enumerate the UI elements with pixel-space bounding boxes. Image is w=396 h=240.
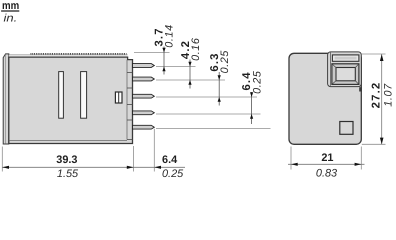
dimension line 39.3 / 6.4 bottom	[2, 166, 185, 169]
latch detail	[115, 92, 122, 103]
extension line F (pin5)	[156, 128, 271, 130]
svg-text:0.25: 0.25	[219, 50, 231, 74]
extension line 6.4 right (pin tips)	[153, 129, 155, 172]
extension line C (pin2)	[156, 79, 225, 81]
svg-text:39.3: 39.3	[56, 154, 77, 166]
extension line 39.3 right / 6.4 left	[133, 146, 135, 172]
label 39.3 / 1.55	[56, 154, 79, 180]
svg-text:in.: in.	[4, 12, 18, 24]
clip window	[332, 64, 359, 85]
pin 3	[133, 94, 155, 98]
extension line A (body top)	[134, 52, 170, 54]
dimension 6.4 / 0.25 (vertical, pin3-pin4)	[241, 70, 263, 124]
clip outer	[328, 52, 362, 87]
svg-text:6.4: 6.4	[162, 154, 177, 166]
extension line 27.2 top	[362, 53, 386, 55]
pin 2	[133, 77, 155, 81]
svg-text:21: 21	[321, 152, 333, 164]
bottom inner line	[9, 140, 127, 142]
relay front view: body	[289, 53, 361, 144]
extension line E (pin4)	[156, 113, 261, 115]
notch on right edge	[359, 87, 362, 91]
pin 1	[133, 64, 155, 68]
extension line D (pin3)	[156, 96, 257, 98]
relay side view: main body	[9, 57, 133, 143]
inner edge line of right face	[126, 60, 128, 140]
extension line B (pin1)	[156, 66, 196, 68]
svg-text:1.07: 1.07	[382, 83, 394, 107]
dimension 4.2 / 0.16	[180, 37, 202, 88]
label 21 / 0.83	[316, 152, 337, 179]
dimension 3.7 / 0.14	[154, 24, 176, 74]
right face bottom step	[127, 139, 133, 141]
svg-text:1.55: 1.55	[57, 168, 79, 180]
pin 4	[133, 111, 155, 115]
pin 5	[133, 125, 155, 129]
divisions on right face	[127, 72, 133, 74]
extension line 39.3 left	[1, 147, 3, 172]
relay side view: rear flange	[3, 54, 9, 144]
svg-text:0.16: 0.16	[190, 37, 202, 60]
dimension line 21	[288, 163, 365, 166]
clip top bar	[332, 55, 359, 61]
bottom-right square detail	[340, 122, 353, 135]
svg-text:mm: mm	[2, 0, 19, 12]
extension line 21 left	[290, 147, 292, 170]
slot 2	[81, 72, 87, 119]
extension line 21 right	[360, 147, 362, 170]
slot 1	[59, 72, 64, 119]
dimension line 27.2	[380, 54, 384, 144]
svg-text:27.2: 27.2	[371, 82, 383, 109]
legend mm/in.	[1, 0, 19, 24]
svg-text:0.14: 0.14	[163, 24, 175, 47]
label 6.4 / 0.25 (bottom)	[162, 154, 184, 180]
extension line 27.2 bottom	[362, 143, 386, 145]
top serrated edge	[9, 54, 128, 57]
label 27.2 / 1.07	[371, 82, 395, 109]
svg-text:0.25: 0.25	[162, 168, 184, 180]
svg-text:0.25: 0.25	[251, 70, 263, 94]
svg-text:0.83: 0.83	[316, 167, 337, 179]
dimension 6.3 / 0.25	[209, 50, 231, 106]
